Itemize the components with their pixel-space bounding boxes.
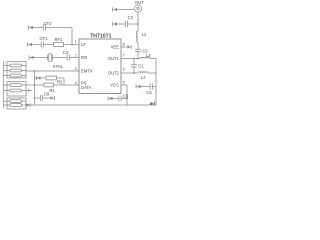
svg-text:LF: LF <box>81 42 86 47</box>
capacitor C6 <box>40 95 42 101</box>
switch S1a <box>10 64 22 67</box>
svg-text:OUT: OUT <box>135 0 145 5</box>
svg-text:CX: CX <box>63 50 69 55</box>
capacitor C2 <box>135 42 141 59</box>
node arrow terminal C3 left <box>112 22 114 26</box>
node junction C1 bottom <box>133 72 135 74</box>
svg-text:EMTX: EMTX <box>81 69 93 74</box>
connector OUT <box>134 5 141 12</box>
node arrow terminal R2 left <box>35 76 37 80</box>
wire bus vertical <box>34 71 36 105</box>
switch S2a <box>10 84 22 87</box>
wire VEE pin8 <box>121 46 127 48</box>
node arrow rail right <box>150 102 154 105</box>
svg-text:XTAL: XTAL <box>53 64 64 69</box>
node arrow terminal C6 right <box>51 96 55 99</box>
svg-text:L3: L3 <box>146 53 151 58</box>
svg-text:L2: L2 <box>141 75 146 80</box>
IC U1 TH71071 box <box>79 39 121 94</box>
wire C4 branch <box>140 86 156 88</box>
resistor R1 <box>44 83 54 87</box>
svg-text:R1: R1 <box>50 88 56 93</box>
svg-text:RF1: RF1 <box>55 37 64 42</box>
switch S3a <box>10 100 22 103</box>
wire OUT2 pin6 <box>121 72 138 74</box>
switch S2b <box>10 89 22 92</box>
capacitor C5 <box>119 96 121 102</box>
svg-text:2: 2 <box>75 54 77 58</box>
svg-text:1: 1 <box>75 40 77 44</box>
switch box S2 <box>7 82 26 97</box>
svg-text:VCC: VCC <box>110 83 119 88</box>
wire bottom rail <box>26 104 156 106</box>
svg-text:3: 3 <box>75 67 77 71</box>
inductor L1 vertical coil <box>137 31 138 42</box>
node arrow terminal C4 left <box>135 84 137 88</box>
node junction VCC C5 <box>126 98 128 100</box>
switch box S3 <box>7 98 26 109</box>
wire VCC pin5 <box>121 85 127 105</box>
wire C5 branch <box>112 98 127 100</box>
svg-text:4: 4 <box>75 81 77 85</box>
svg-text:CF2: CF2 <box>44 21 53 26</box>
wire RO net <box>34 57 80 59</box>
left rail <box>3 61 5 109</box>
wire OUT net <box>117 10 138 25</box>
capacitor CF2 <box>43 25 45 31</box>
inductor L3 top coil <box>141 57 151 58</box>
node junction C2 top <box>137 58 139 60</box>
svg-text:OUT1: OUT1 <box>108 56 120 61</box>
wire box2 out upper <box>26 84 35 86</box>
wire antenna right edge <box>155 59 157 106</box>
inductor L2 bottom coil <box>138 72 148 73</box>
wire DATA net <box>35 84 80 86</box>
svg-text:C6: C6 <box>44 92 50 97</box>
node junction LF <box>71 44 73 46</box>
svg-text:C1: C1 <box>138 64 144 69</box>
node arrow terminal RO left <box>28 55 30 59</box>
node arrow terminal OUT left <box>112 7 114 11</box>
capacitor C4 <box>150 84 152 90</box>
svg-text:C4: C4 <box>146 90 152 95</box>
resistor RF1 <box>54 43 64 47</box>
node arrow box3 out <box>27 103 30 106</box>
svg-text:VEE: VEE <box>111 45 120 50</box>
capacitor C3 <box>125 21 127 27</box>
wire box2 out lower <box>26 90 32 92</box>
node arrow terminal CF1 left <box>27 42 29 46</box>
svg-text:CF1: CF1 <box>40 36 49 41</box>
capacitor CF1 <box>41 42 43 48</box>
switch S3b <box>10 104 22 107</box>
svg-text:C5: C5 <box>123 94 129 99</box>
wire C3 net <box>117 23 138 25</box>
svg-text:OUT2: OUT2 <box>108 71 120 76</box>
capacitor CX <box>67 55 69 61</box>
switch S1c <box>10 74 22 77</box>
svg-text:8: 8 <box>123 42 125 46</box>
crystal XTAL <box>48 55 53 60</box>
resistor R2 <box>46 76 57 80</box>
svg-text:L1: L1 <box>142 32 147 37</box>
svg-text:6: 6 <box>123 67 125 71</box>
svg-text:7: 7 <box>123 54 125 58</box>
wire C6 branch <box>35 97 51 99</box>
node junction C1 top <box>133 58 135 60</box>
node junction C3 <box>137 23 139 25</box>
switch S1b <box>10 69 22 72</box>
svg-text:R2: R2 <box>57 79 63 84</box>
wire CF2 net top <box>33 28 72 45</box>
svg-text:5: 5 <box>123 80 125 84</box>
wire OUT1 pin7 <box>121 58 141 60</box>
svg-text:RO: RO <box>81 55 88 60</box>
svg-text:C3: C3 <box>128 15 134 20</box>
node arrow terminal CF2 left <box>28 25 30 29</box>
wire PS R2 branch <box>35 78 65 85</box>
wire EMTX net <box>26 70 79 72</box>
svg-text:DATA: DATA <box>81 85 92 90</box>
svg-text:TH71071: TH71071 <box>90 33 111 39</box>
wire LF net <box>32 44 79 46</box>
capacitor C1 <box>131 59 137 74</box>
switch box S1 <box>7 62 26 79</box>
node arrow terminal VEE <box>127 45 131 48</box>
node arrow terminal C5 left <box>107 96 109 100</box>
node junction bus top <box>34 70 36 72</box>
